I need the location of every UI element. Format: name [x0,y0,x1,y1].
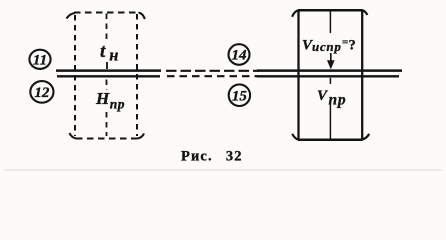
node 14 circled [229,44,250,65]
bottom-right corner flick [362,134,369,140]
bottom-right corner flick [137,134,144,139]
svg-text:11: 11 [33,52,47,68]
node 15 circled [229,84,250,106]
bottom edge [298,139,363,142]
svg-text:?: ? [349,38,356,54]
svg-text:Рис. 32: Рис. 32 [181,149,243,165]
faint scan line artifact near bottom [4,169,442,171]
wire: flight line upper, middle dashed segment [166,70,258,72]
svg-text:Vиспр: Vиспр [302,38,342,55]
svg-text:15: 15 [232,88,248,104]
wire: flight line upper, left solid segment [56,69,161,72]
top-right corner flick [362,10,367,15]
right vertical edge [361,11,363,140]
middle vertical dash above flight line [106,62,108,69]
svg-text:tн: tн [100,41,118,65]
wire: flight line lower, right solid segment [257,75,399,77]
top dashed edge [74,11,139,13]
bottom-left corner flick [292,134,298,140]
svg-text:=: = [342,37,348,49]
left vertical edge [297,11,299,140]
svg-text:14: 14 [232,48,248,64]
left vertical dashed edge [74,15,76,136]
node 12 circled [30,81,53,103]
wire: flight line upper, right solid segment [257,69,402,72]
left frame, dashed photo frame [67,13,145,139]
wire: flight line lower, left solid segment [57,75,160,77]
top-right corner flick [139,13,145,20]
wire: flight line lower, middle dashed segment [167,75,258,77]
bottom-left corner flick [70,133,77,139]
node 11 circled [29,50,50,69]
middle vertical dash below flight line [106,80,108,91]
svg-text:12: 12 [34,85,50,101]
top-left corner flick [292,10,298,17]
top edge [298,9,363,12]
top-left corner flick [67,13,76,19]
middle vertical dashed line, bottom piece [106,112,108,136]
middle vertical thin line, lower piece [329,102,331,140]
right vertical dashed edge [136,14,138,136]
middle vertical thin line, below flight line [329,78,331,84]
middle vertical thin line, upper piece [329,11,331,33]
middle vertical dashed line, top piece [106,14,108,42]
arrow from Vispr label down to flight line [330,53,332,63]
bottom dashed edge [76,137,137,139]
right frame, solid photo frame [292,10,369,140]
